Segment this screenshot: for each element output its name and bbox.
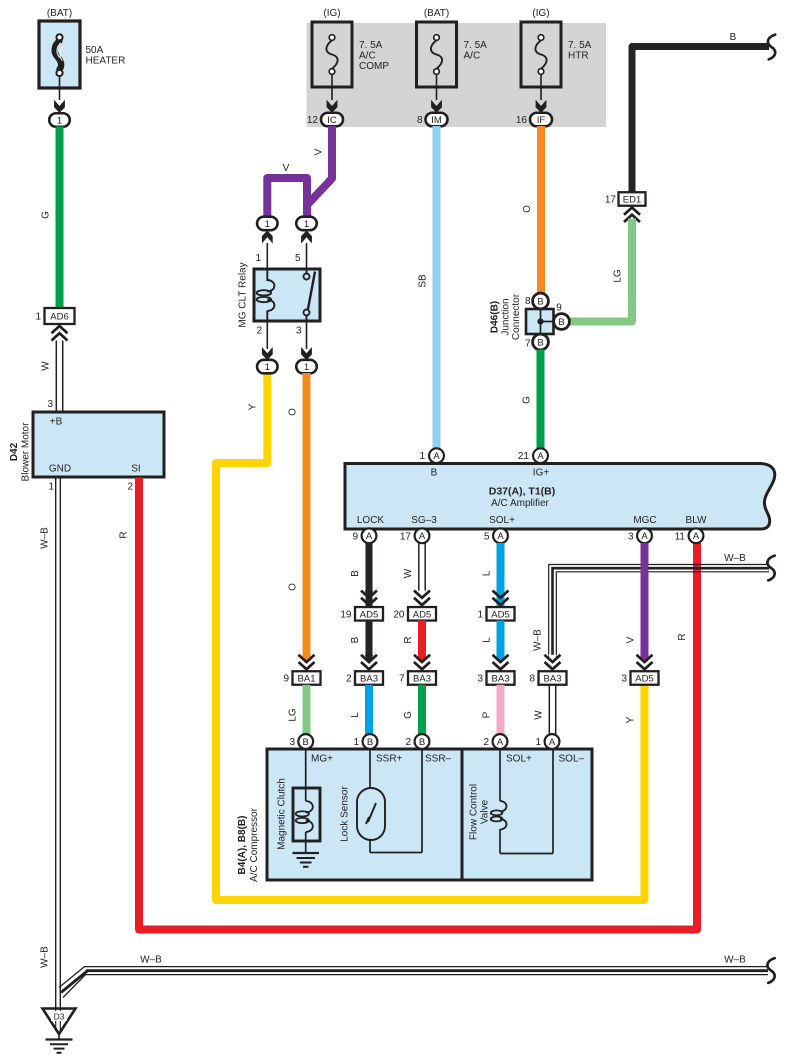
- wire R AD5 to BA3: [418, 621, 426, 659]
- terminal arrow relay3: [301, 347, 312, 360]
- wire P below BA3: [497, 685, 505, 735]
- chevron into 8 BA3: [548, 655, 557, 663]
- svg-text:3: 3: [296, 326, 302, 337]
- compressor pin 1 A: [545, 734, 560, 749]
- svg-text:IM: IM: [431, 115, 442, 126]
- connector 3 BA3: [487, 671, 515, 685]
- svg-text:W–B: W–B: [40, 527, 51, 549]
- svg-text:A: A: [366, 531, 373, 542]
- svg-text:IG+: IG+: [533, 468, 550, 479]
- blower motor D42 box: [9, 412, 164, 493]
- svg-text:5: 5: [295, 253, 301, 264]
- chevron into 3 AD5: [640, 655, 649, 663]
- svg-text:3: 3: [628, 532, 634, 543]
- svg-text:3: 3: [621, 674, 627, 685]
- svg-text:ED1: ED1: [623, 195, 641, 206]
- svg-text:R: R: [677, 633, 688, 640]
- compressor pin 2 B: [415, 734, 430, 749]
- svg-text:A: A: [549, 737, 556, 748]
- svg-text:Y: Y: [626, 716, 637, 723]
- break symbol B wire: [768, 35, 775, 60]
- svg-text:A: A: [641, 531, 648, 542]
- svg-text:O: O: [288, 583, 299, 591]
- connector ED1: [619, 192, 646, 206]
- svg-text:AD5: AD5: [360, 609, 378, 620]
- connector 20 AD5: [408, 607, 436, 621]
- MG CLT Relay box: [238, 262, 321, 327]
- svg-text:O: O: [522, 205, 533, 213]
- svg-text:17: 17: [400, 532, 412, 543]
- svg-text:SI: SI: [131, 464, 140, 475]
- svg-text:Magnetic Clutch: Magnetic Clutch: [277, 778, 288, 850]
- svg-text:2: 2: [256, 326, 262, 337]
- wire G below BA3: [418, 685, 426, 735]
- svg-text:W: W: [534, 710, 545, 720]
- svg-text:D37(A), T1(B): D37(A), T1(B): [489, 486, 556, 498]
- wire B from LOCK: [366, 543, 373, 658]
- svg-text:R: R: [119, 531, 130, 538]
- svg-text:7. 5A: 7. 5A: [359, 40, 383, 51]
- svg-text:21: 21: [518, 451, 530, 462]
- svg-text:3: 3: [47, 399, 53, 410]
- connector 7 BA3: [408, 671, 436, 685]
- svg-text:W–B: W–B: [140, 955, 162, 966]
- wire SB from IM: [433, 126, 441, 448]
- wire B AD5 to BA3: [366, 621, 373, 659]
- wire O orange from IF: [537, 126, 545, 294]
- svg-text:B: B: [431, 468, 438, 479]
- svg-text:A/C: A/C: [464, 51, 481, 62]
- relay pin leads bottom: [266, 321, 268, 349]
- svg-text:B: B: [558, 317, 564, 328]
- svg-text:16: 16: [516, 115, 528, 126]
- wire Y yellow path: [216, 373, 645, 900]
- svg-text:L: L: [482, 570, 493, 576]
- svg-text:HTR: HTR: [568, 51, 589, 62]
- svg-text:5: 5: [484, 532, 490, 543]
- svg-text:+B: +B: [50, 417, 63, 428]
- svg-text:1: 1: [57, 115, 62, 126]
- svg-text:MG CLT Relay: MG CLT Relay: [238, 262, 249, 327]
- svg-text:9: 9: [352, 532, 358, 543]
- svg-text:P: P: [482, 711, 493, 718]
- terminal arrow IF: [536, 100, 547, 113]
- svg-text:G: G: [41, 211, 52, 219]
- amp pin 9 circle: [362, 528, 377, 543]
- junction circle B right: [554, 314, 570, 330]
- svg-text:B: B: [537, 296, 543, 307]
- svg-text:V: V: [314, 148, 325, 155]
- svg-text:1: 1: [265, 362, 270, 373]
- break symbol W-B mid: [767, 556, 774, 581]
- chevron into 7 BA3: [418, 655, 427, 663]
- svg-text:Blower Motor: Blower Motor: [21, 422, 32, 482]
- junction circle B top: [533, 293, 549, 309]
- svg-text:1: 1: [304, 362, 309, 373]
- svg-text:7: 7: [399, 674, 405, 685]
- svg-text:L: L: [350, 712, 361, 718]
- chevron into ED1: [624, 215, 640, 222]
- amp pin 21 circle: [533, 448, 548, 463]
- svg-text:Junction: Junction: [501, 298, 512, 335]
- svg-text:D3: D3: [54, 1012, 65, 1022]
- terminal arrow relay1: [262, 231, 273, 244]
- svg-text:3: 3: [289, 737, 295, 748]
- fuse 7.5A A/C COMP: [312, 22, 352, 87]
- svg-text:BA1: BA1: [298, 674, 316, 685]
- wire B black: [632, 47, 769, 193]
- svg-text:B: B: [303, 737, 309, 748]
- svg-text:A: A: [497, 531, 504, 542]
- svg-text:11: 11: [675, 532, 686, 543]
- amp pin 11 circle: [689, 528, 704, 543]
- wire LG below BA1: [303, 685, 311, 735]
- svg-text:9: 9: [556, 303, 562, 314]
- A/C compressor right box: [462, 749, 592, 880]
- wire R red U-path: [139, 478, 697, 930]
- svg-text:1: 1: [353, 737, 359, 748]
- svg-text:B: B: [537, 337, 543, 348]
- svg-text:GND: GND: [49, 464, 71, 475]
- svg-text:G: G: [403, 711, 414, 719]
- svg-text:(IG): (IG): [532, 8, 549, 19]
- svg-text:A/C Amplifier: A/C Amplifier: [491, 498, 549, 509]
- oval terminal relay pin1 top: [257, 217, 278, 231]
- compressor pin 3 B: [298, 734, 313, 749]
- wire V from MGC: [641, 543, 649, 658]
- A/C amplifier D37 box: [345, 464, 775, 530]
- wire V violet from IC: [307, 126, 332, 217]
- svg-text:(IG): (IG): [323, 8, 340, 19]
- svg-text:2: 2: [483, 737, 489, 748]
- connector 8 BA3: [539, 671, 567, 685]
- svg-text:1: 1: [477, 609, 483, 620]
- ground symbol magnetic clutch: [293, 852, 320, 854]
- svg-text:12: 12: [307, 115, 319, 126]
- break symbol W-B bottom: [767, 958, 774, 983]
- svg-text:A: A: [419, 531, 426, 542]
- wire L AD5 to BA3: [497, 621, 505, 659]
- magnetic clutch circuit: [277, 749, 321, 853]
- connector BA1: [293, 671, 321, 685]
- svg-text:7. 5A: 7. 5A: [464, 40, 488, 51]
- amp pin 17 circle: [415, 528, 430, 543]
- svg-text:B: B: [419, 737, 425, 748]
- svg-text:A/C: A/C: [359, 51, 376, 62]
- svg-text:COMP: COMP: [359, 61, 389, 72]
- chevron into 3 BA3: [496, 655, 505, 663]
- oval terminal relay pin5 top: [296, 217, 317, 231]
- svg-text:W–B: W–B: [533, 629, 544, 651]
- svg-text:(BAT): (BAT): [424, 8, 449, 19]
- svg-text:SOL–: SOL–: [559, 754, 585, 765]
- svg-text:LG: LG: [613, 269, 624, 283]
- svg-text:LG: LG: [288, 708, 299, 722]
- connector AD6: [45, 308, 75, 324]
- svg-text:D42: D42: [9, 442, 20, 461]
- svg-text:L: L: [482, 637, 493, 643]
- fuse 7.5A A/C: [417, 22, 457, 87]
- svg-text:AD5: AD5: [635, 674, 653, 685]
- oval terminal relay pin3 bottom: [296, 360, 317, 374]
- svg-text:MG+: MG+: [311, 754, 333, 765]
- svg-text:O: O: [288, 408, 299, 416]
- svg-text:W–B: W–B: [724, 553, 746, 564]
- svg-text:A: A: [433, 451, 440, 462]
- A/C compressor left box: [267, 749, 462, 880]
- fusible link FL 50A HEATER box: [39, 8, 125, 88]
- svg-text:B: B: [350, 636, 361, 643]
- svg-text:9: 9: [283, 674, 289, 685]
- svg-text:B: B: [367, 737, 373, 748]
- svg-text:20: 20: [393, 609, 405, 620]
- terminal arrow into oval 1: [54, 100, 65, 113]
- terminal arrow relay2: [262, 347, 273, 360]
- wire W below BA3: [548, 685, 550, 735]
- svg-text:W: W: [403, 568, 414, 578]
- chevron into BA1: [302, 655, 311, 663]
- svg-text:Lock Sensor: Lock Sensor: [340, 786, 351, 842]
- flow control valve circuit: [469, 749, 554, 854]
- wire W-B mid horizontal and vertical: [549, 565, 769, 659]
- svg-text:AD5: AD5: [491, 609, 509, 620]
- svg-text:1: 1: [265, 219, 270, 230]
- connector 1 AD5: [487, 607, 515, 621]
- svg-text:3: 3: [477, 674, 483, 685]
- ground D3: [43, 1009, 76, 1053]
- svg-text:1: 1: [419, 451, 425, 462]
- terminal arrow IC: [327, 100, 338, 113]
- svg-text:SOL+: SOL+: [489, 515, 515, 526]
- svg-text:A: A: [497, 737, 504, 748]
- svg-text:BLW: BLW: [686, 515, 707, 526]
- svg-text:7: 7: [525, 339, 531, 350]
- wire G from junction: [537, 350, 545, 449]
- svg-text:B4(A), B8(B): B4(A), B8(B): [237, 816, 248, 875]
- svg-text:1: 1: [304, 219, 309, 230]
- amp pin 1 circle: [429, 448, 444, 463]
- chevron into 20 AD5: [418, 591, 427, 599]
- wire O orange from relay3: [303, 373, 311, 657]
- svg-text:BA3: BA3: [413, 674, 431, 685]
- svg-text:IF: IF: [537, 115, 546, 126]
- svg-text:W–B: W–B: [40, 946, 51, 968]
- svg-text:Connector: Connector: [511, 293, 522, 340]
- chevron into 19 AD5: [365, 591, 374, 599]
- svg-text:Y: Y: [248, 403, 259, 410]
- svg-text:50A: 50A: [86, 45, 104, 56]
- svg-text:17: 17: [605, 195, 617, 206]
- wire W-B bottom bus: [84, 966, 768, 968]
- oval terminal relay pin2 bottom: [257, 360, 278, 374]
- svg-text:D46(B): D46(B): [490, 301, 501, 333]
- wire LG from ED1: [567, 219, 632, 322]
- wire W white: [55, 341, 57, 413]
- svg-text:BA3: BA3: [544, 674, 562, 685]
- oval terminal IF: [530, 113, 552, 127]
- svg-text:W: W: [41, 361, 52, 371]
- oval terminal IM: [426, 113, 448, 127]
- wire L below BA3: [365, 685, 373, 735]
- svg-text:7. 5A: 7. 5A: [568, 40, 592, 51]
- chevron into AD6: [52, 333, 68, 340]
- svg-text:LOCK: LOCK: [357, 515, 385, 526]
- amp pin 3 circle: [637, 528, 652, 543]
- connector 3 AD5: [631, 671, 659, 685]
- wire G green: [56, 127, 64, 310]
- svg-text:SG–3: SG–3: [411, 515, 437, 526]
- svg-text:SSR+: SSR+: [376, 754, 403, 765]
- svg-text:A: A: [693, 531, 700, 542]
- pin lead from fusible link: [59, 76, 61, 100]
- svg-text:A/C Compressor: A/C Compressor: [249, 807, 260, 882]
- junction circle B bottom: [533, 334, 549, 350]
- svg-text:2: 2: [405, 737, 411, 748]
- svg-text:AD5: AD5: [413, 609, 431, 620]
- gray fuse block background: [307, 23, 607, 127]
- relay pin leads top: [266, 243, 268, 270]
- svg-text:A: A: [537, 451, 544, 462]
- svg-text:R: R: [403, 636, 414, 643]
- svg-text:8: 8: [525, 296, 531, 307]
- connector 19 AD5: [355, 607, 383, 621]
- compressor pin 1 B: [363, 734, 378, 749]
- amp pin 5 circle: [493, 528, 508, 543]
- svg-text:2: 2: [346, 674, 352, 685]
- svg-text:1: 1: [255, 253, 261, 264]
- wire L from SOL+: [497, 543, 505, 658]
- junction connector D46(B): [490, 293, 554, 340]
- svg-text:8: 8: [529, 674, 535, 685]
- svg-text:1: 1: [48, 482, 54, 493]
- svg-text:G: G: [522, 396, 533, 404]
- svg-text:BA3: BA3: [492, 674, 510, 685]
- svg-text:HEATER: HEATER: [86, 56, 126, 67]
- chevron into 2 BA3: [365, 655, 374, 663]
- terminal arrow IM: [431, 100, 442, 113]
- svg-text:V: V: [283, 163, 290, 174]
- svg-text:SOL+: SOL+: [506, 754, 532, 765]
- svg-text:1: 1: [35, 312, 41, 323]
- connector 2 BA3: [355, 671, 383, 685]
- svg-text:SB: SB: [418, 274, 429, 288]
- svg-text:V: V: [626, 636, 637, 643]
- svg-text:8: 8: [417, 115, 423, 126]
- svg-text:W–B: W–B: [724, 955, 746, 966]
- svg-text:19: 19: [340, 609, 352, 620]
- svg-text:MGC: MGC: [633, 515, 656, 526]
- svg-text:1: 1: [535, 737, 541, 748]
- fuse 7.5A HTR: [521, 22, 561, 87]
- chevron into 1 AD5: [496, 591, 505, 599]
- svg-text:2: 2: [127, 482, 133, 493]
- compressor pin 2 A: [493, 734, 508, 749]
- lock sensor circuit: [340, 749, 423, 853]
- svg-text:Valve: Valve: [480, 799, 491, 824]
- wire W from SG-3: [418, 543, 420, 592]
- svg-text:B: B: [730, 32, 737, 43]
- svg-text:(BAT): (BAT): [47, 8, 72, 19]
- wire W-B left vertical: [55, 478, 57, 1009]
- oval terminal 1 (heater fuse): [49, 113, 70, 127]
- svg-text:AD6: AD6: [50, 312, 68, 323]
- oval terminal IC: [321, 113, 343, 127]
- terminal arrow relay5: [301, 231, 312, 244]
- svg-text:BA3: BA3: [360, 674, 378, 685]
- svg-text:Flow Control: Flow Control: [469, 784, 480, 840]
- svg-text:IC: IC: [327, 115, 337, 126]
- svg-text:SSR–: SSR–: [425, 754, 452, 765]
- svg-text:B: B: [350, 570, 361, 577]
